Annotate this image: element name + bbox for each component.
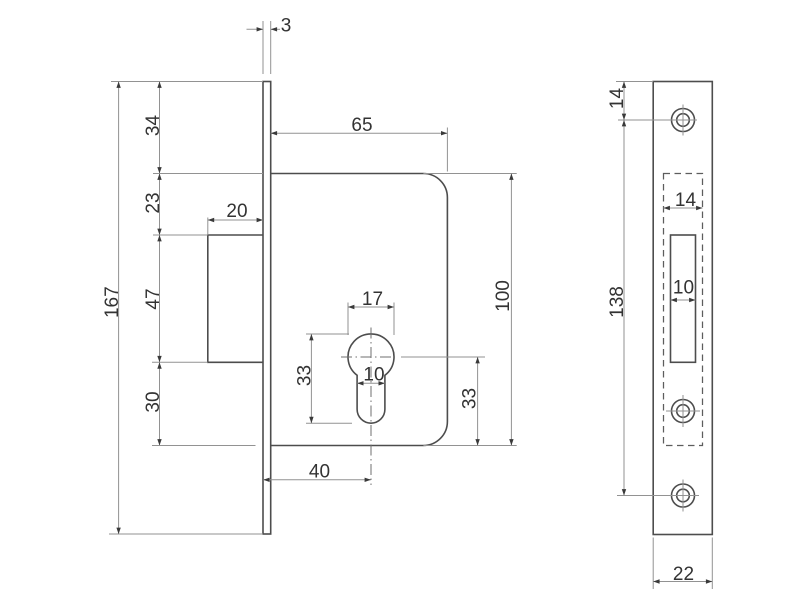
strike plate dashed cutout region [664,174,703,446]
dimension 34 [159,82,161,174]
cylinder horizontal centerline [341,356,394,358]
dimension 10 (bolt hole width) [671,299,696,301]
dimension 14 (strike top) [623,82,625,121]
middle screw hole [672,400,695,423]
svg-text:33: 33 [294,365,315,386]
bottom screw hole vertical crosshair [682,480,684,512]
dimension 17 extension lines [347,303,349,336]
svg-text:138: 138 [607,286,628,318]
dimension 23 [159,174,161,236]
dimension 33 (left of cylinder) extension lines [306,333,349,335]
top screw center extension line [618,119,697,121]
cylinder vertical centerline [370,328,372,486]
dimension 22 [653,581,712,583]
latch bolt rectangle [208,235,263,362]
faceplate (side view, thin vertical plate) [263,82,271,535]
dimension 17 [348,306,394,308]
svg-text:65: 65 [351,115,372,136]
top screw hole [672,109,695,132]
svg-text:33: 33 [460,388,481,409]
extension line at latch top [153,234,208,236]
euro cylinder keyhole profile [348,334,394,423]
svg-text:167: 167 [102,286,123,318]
svg-text:17: 17 [362,289,383,310]
svg-text:47: 47 [143,288,164,309]
svg-text:14: 14 [607,88,628,110]
svg-text:3: 3 [281,15,292,36]
dimension 33 (left of cylinder) [310,334,312,423]
extension line at lock body bottom left [152,445,256,447]
dimension 167 extension line top [111,81,263,83]
dimension 65 [271,132,448,134]
bottom screw hole [672,484,695,507]
strike plate outline [653,82,712,535]
dimension 22 extension lines [652,538,654,590]
dimension 3 extension lines [262,21,264,74]
middle screw hole crosshairs [666,410,700,412]
dimension 138 [623,120,625,496]
top screw hole vertical crosshair [682,105,684,136]
dimension 14 (dashed cutout width) [664,207,703,209]
svg-text:20: 20 [226,201,247,222]
svg-text:10: 10 [363,365,384,386]
bottom screw center extension line [617,495,699,497]
dimension 14 (strike top) extension line [616,81,653,83]
dimension 65 extension line right [446,128,448,172]
dimension 33 (right) extension line [401,356,485,358]
dimension 100 extension lines [423,173,516,175]
extension line at latch bottom [152,361,208,363]
dimension 47 [159,235,161,362]
svg-text:23: 23 [143,192,164,213]
dimension 33 (right) [477,357,479,446]
dimension 30 [159,362,161,445]
dimension 100 [510,174,512,446]
lock body outline with rounded right corners [271,174,448,446]
svg-text:34: 34 [143,115,164,137]
svg-text:14: 14 [675,190,697,211]
svg-text:10: 10 [673,278,694,299]
dimension 10 (cylinder slot) [357,382,385,384]
dimension 20 [208,219,263,221]
dimension 40 [263,479,371,481]
dimension 167 [118,82,120,535]
svg-text:100: 100 [493,280,514,312]
dimension 3 [247,28,264,30]
strike plate bolt hole rectangle [671,235,696,362]
svg-text:40: 40 [309,462,330,483]
dimension 167 extension line bottom [109,533,263,535]
svg-text:22: 22 [673,564,694,585]
extension line at lock body top [153,173,263,175]
svg-text:30: 30 [143,391,164,412]
